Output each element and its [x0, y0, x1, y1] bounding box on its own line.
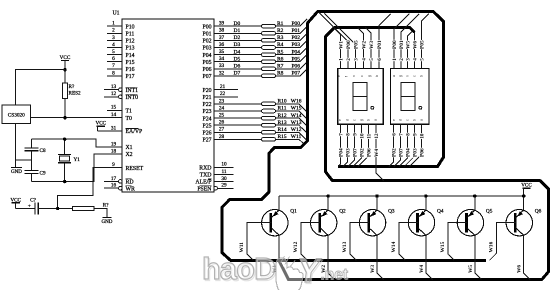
svg-text:5: 5	[369, 58, 375, 61]
svg-text:P17: P17	[126, 74, 135, 80]
svg-text:4: 4	[112, 42, 115, 48]
svg-text:P01: P01	[377, 40, 383, 49]
sensor CS3020 U?	[2, 105, 30, 124]
wire harness bundle A (display/base loop)	[222, 12, 486, 261]
wire VCC to CS3020	[16, 70, 66, 105]
svg-text:n: n	[352, 75, 356, 77]
wire DS2 pin 4 net W6	[414, 32, 416, 68]
svg-text:P26: P26	[202, 131, 211, 137]
transistor Q4	[408, 209, 444, 236]
svg-text:P20: P20	[202, 88, 211, 94]
wire R to GND	[94, 209, 107, 218]
svg-text:P01: P01	[202, 32, 211, 38]
svg-text:P14: P14	[126, 53, 135, 59]
resistor R6	[262, 56, 284, 63]
svg-text:haoD: haoD	[202, 252, 275, 286]
svg-text:D0: D0	[234, 21, 241, 27]
wire DS1 pin 1 net W1	[334, 28, 340, 68]
svg-text:1: 1	[338, 58, 344, 61]
svg-text:31: 31	[111, 125, 117, 131]
pin 9 RESET	[107, 162, 144, 172]
wire C7 to junction	[38, 208, 72, 210]
wire D3	[214, 47, 262, 49]
svg-text:6: 6	[377, 58, 383, 61]
pin 24 P23	[202, 105, 224, 115]
svg-text:P10: P10	[126, 24, 135, 30]
watermark haoDIY.net	[202, 252, 348, 290]
pin 25 P24	[202, 113, 224, 123]
svg-text:e: e	[338, 119, 342, 121]
wire D4	[214, 54, 262, 56]
svg-text:4: 4	[413, 58, 419, 61]
svg-text:RESET: RESET	[126, 166, 144, 172]
wire P24 to R12	[214, 117, 262, 119]
svg-text:PSEN: PSEN	[197, 187, 212, 193]
wire D1	[214, 32, 262, 34]
svg-text:RES2: RES2	[69, 91, 82, 97]
wire Q6 base W16	[490, 223, 516, 261]
pin 35 P04	[202, 49, 224, 59]
svg-text:P00: P00	[346, 40, 352, 49]
svg-text:e: e	[337, 75, 341, 77]
power VCC (reset)	[10, 197, 21, 208]
svg-text:P07: P07	[399, 148, 405, 157]
svg-text:P02: P02	[360, 148, 366, 157]
wire DS2 pin 7 net P07	[394, 124, 401, 166]
node RESET junction	[56, 207, 59, 210]
svg-text:W11: W11	[239, 242, 245, 253]
pin 22 P21	[202, 91, 238, 101]
svg-text:P02: P02	[392, 148, 398, 157]
svg-text:W16: W16	[489, 241, 495, 252]
transistor Q1	[262, 209, 298, 236]
wire P03 to harness	[276, 40, 308, 47]
resistor R1	[262, 21, 284, 28]
pin 34 P05	[202, 56, 224, 66]
svg-text:D2: D2	[234, 35, 241, 41]
svg-text:P05: P05	[354, 40, 360, 49]
svg-text:INT1: INT1	[126, 88, 139, 94]
svg-text:P06: P06	[419, 148, 425, 157]
wire P22 to R10	[214, 103, 262, 105]
svg-text:a: a	[392, 75, 396, 77]
svg-text:P21: P21	[202, 95, 211, 101]
pin 2 P11	[107, 28, 134, 38]
wire P01 to harness	[276, 26, 308, 33]
wire Q5 collector W5	[475, 235, 482, 279]
svg-text:W5: W5	[468, 265, 474, 273]
svg-text:5: 5	[420, 58, 426, 61]
pin 7 P16	[107, 63, 135, 73]
svg-text:P03: P03	[412, 148, 418, 157]
node VCC rail junction Q2	[326, 194, 329, 197]
svg-text:b: b	[413, 119, 417, 121]
svg-text:Q5: Q5	[486, 209, 493, 215]
svg-text:D7: D7	[234, 71, 241, 77]
wire D5	[214, 61, 262, 63]
pin 6 P15	[107, 56, 135, 66]
svg-text:W6: W6	[413, 41, 419, 49]
ground GND (reset)	[101, 218, 112, 226]
svg-text:18: 18	[111, 148, 117, 154]
pin 33 P06	[202, 63, 224, 73]
wire Q5 emitter to VCC rail	[474, 196, 476, 210]
wire DS2 pin 3 net W5	[408, 32, 412, 69]
wire P25 to R13	[214, 124, 262, 126]
pin 37 P02	[202, 35, 224, 45]
pin 18 X2	[107, 148, 133, 158]
pin 17 RD	[104, 176, 134, 186]
capacitor C9	[24, 160, 46, 181]
resistor R? (reset pulldown)	[73, 203, 110, 211]
svg-text:13: 13	[111, 84, 117, 90]
wire X2 rail	[31, 154, 107, 182]
svg-text:T1: T1	[126, 109, 133, 115]
svg-text:W15: W15	[440, 241, 446, 252]
svg-text:P04: P04	[406, 148, 412, 157]
svg-text:GND: GND	[101, 220, 112, 225]
wire Q2 base W12	[301, 223, 320, 261]
svg-text:RXD: RXD	[199, 166, 211, 172]
svg-text:P13: P13	[126, 46, 135, 52]
power VCC (top left)	[60, 55, 71, 69]
resistor R14	[262, 127, 287, 134]
wire DS1 pin 3 net P05	[324, 13, 355, 68]
svg-text:g: g	[399, 75, 403, 77]
wire Q1 collector W1	[278, 235, 280, 259]
svg-text:9: 9	[412, 133, 418, 136]
pin 26 P25	[202, 120, 224, 130]
pin 4 P13	[107, 42, 135, 52]
wire P07 to harness	[276, 69, 308, 76]
svg-text:P00: P00	[202, 24, 211, 30]
node Y1 top junction	[63, 138, 66, 141]
resistor R15	[262, 134, 287, 141]
svg-text:ALE/P: ALE/P	[195, 180, 211, 186]
pin 11 TXD	[200, 169, 234, 179]
svg-text:P07: P07	[353, 148, 359, 157]
wire CS3020 output to T0 pin 14	[30, 117, 122, 119]
svg-text:TXD: TXD	[200, 173, 212, 179]
svg-text:T0: T0	[126, 116, 133, 122]
wire DS2 pin 2 net P01	[401, 14, 419, 69]
svg-text:W4: W4	[374, 149, 380, 157]
transistor Q5	[457, 209, 493, 236]
svg-text:11: 11	[221, 169, 226, 175]
pin 12 INT0	[104, 91, 138, 101]
node R-bottom junction	[63, 116, 66, 119]
svg-text:D1: D1	[234, 28, 241, 34]
svg-text:P06: P06	[367, 148, 373, 157]
wire harness bundle B (digit common loop)	[279, 28, 549, 280]
pin 5 P14	[107, 49, 135, 59]
svg-text:1: 1	[392, 58, 398, 61]
pin 21 P20	[202, 84, 238, 94]
svg-text:W13: W13	[342, 241, 348, 252]
svg-text:21: 21	[220, 84, 226, 90]
svg-text:Q2: Q2	[339, 209, 346, 215]
svg-text:P23: P23	[202, 109, 211, 115]
svg-text:W6: W6	[517, 265, 523, 273]
display DS2 segment letters	[392, 75, 424, 121]
svg-text:12: 12	[111, 91, 117, 97]
svg-text:1: 1	[112, 21, 115, 27]
node VCC rail junction Q3	[375, 194, 378, 197]
wire P26 to R14	[214, 131, 262, 133]
wire Q1 base W11	[247, 223, 271, 261]
node VCC junction	[63, 68, 66, 71]
svg-text:D3: D3	[234, 42, 241, 48]
resistor R11	[262, 106, 287, 113]
svg-text:Q4: Q4	[437, 209, 444, 215]
capacitor C? electrolytic C7	[28, 197, 38, 214]
svg-text:10: 10	[419, 133, 425, 139]
svg-text:16: 16	[111, 183, 117, 189]
wire P02 to harness	[276, 33, 308, 40]
svg-text:19: 19	[111, 141, 117, 147]
svg-text:c: c	[413, 75, 417, 77]
node VCC rail junction Q4	[424, 194, 427, 197]
svg-text:W14: W14	[391, 241, 397, 252]
svg-text:W5: W5	[406, 41, 412, 49]
svg-text:37: 37	[219, 35, 225, 41]
ground GND (below CS3020)	[11, 124, 22, 175]
pin 29 PSEN	[197, 183, 233, 193]
svg-text:n: n	[406, 75, 410, 77]
wire Q6 emitter to VCC rail	[523, 196, 525, 210]
wire Q2 emitter to VCC rail	[327, 196, 329, 210]
svg-text:8: 8	[112, 70, 115, 76]
display DS2 body	[391, 68, 430, 124]
wire W14 to harness	[276, 118, 308, 127]
wire Q4 emitter to VCC rail	[425, 196, 427, 210]
wire W12 to harness	[276, 132, 308, 141]
pin 36 P03	[202, 42, 224, 52]
wire D2	[214, 39, 262, 41]
resistor R2	[262, 28, 284, 35]
svg-text:P22: P22	[202, 102, 211, 108]
wire P00 to harness	[276, 19, 308, 26]
svg-text:P03: P03	[345, 148, 351, 157]
wire P23 to R11	[214, 110, 262, 112]
pin 19 X1	[107, 141, 133, 151]
svg-text:a: a	[373, 119, 377, 121]
pin 1 P10	[107, 21, 135, 31]
wire Q1 emitter to VCC rail	[278, 196, 280, 210]
svg-text:2: 2	[399, 58, 405, 61]
pin 38 P01	[202, 28, 224, 38]
resistor R? RES2	[63, 70, 81, 118]
pin 30 ALE/P	[195, 176, 233, 186]
svg-text:3: 3	[354, 58, 360, 61]
svg-text:P05: P05	[420, 40, 426, 49]
svg-text:P03: P03	[202, 46, 211, 52]
resistor R3	[262, 35, 284, 42]
svg-text:3: 3	[406, 58, 412, 61]
wire DS2 pin 1 net P00	[394, 14, 409, 69]
pin 14 T0	[111, 112, 132, 122]
wire P27 to R15	[214, 138, 262, 140]
transistor Q2	[311, 209, 347, 236]
svg-text:CS3020: CS3020	[8, 112, 25, 118]
svg-text:4: 4	[361, 58, 367, 61]
wire VCC rail (emitters)	[279, 195, 524, 197]
node VCC rail junction Q5	[473, 194, 476, 197]
wire Q3 base W13	[350, 223, 369, 261]
node Y1 bottom junction	[63, 180, 66, 183]
svg-text:d: d	[399, 119, 403, 121]
wire DS1 pin 9 net P07	[348, 124, 355, 166]
svg-text:b: b	[375, 75, 379, 77]
svg-text:e: e	[392, 119, 396, 121]
svg-text:X1: X1	[126, 145, 133, 151]
wire DS1 pin 5 net W3	[365, 28, 371, 69]
display DS1 body	[338, 68, 384, 124]
svg-text:P25: P25	[202, 123, 211, 129]
capacitor C8	[24, 139, 46, 160]
svg-text:33: 33	[219, 63, 225, 69]
svg-text:R?: R?	[103, 203, 109, 209]
svg-text:f: f	[345, 76, 349, 77]
wire DS1 pin 6 net P01	[379, 14, 391, 69]
svg-text:Q1: Q1	[290, 209, 297, 215]
resistor R5	[262, 49, 284, 56]
svg-text:10: 10	[360, 133, 366, 139]
wire Q5 base W15	[448, 223, 467, 261]
svg-text:34: 34	[219, 56, 225, 62]
svg-text:g: g	[359, 119, 363, 121]
pin 31 EA/VP	[97, 125, 142, 135]
svg-text:P05: P05	[202, 60, 211, 66]
svg-text:c: c	[352, 119, 356, 121]
wire P04 to harness	[276, 47, 308, 54]
svg-text:W2: W2	[361, 41, 367, 49]
svg-text:2: 2	[112, 28, 115, 34]
wire Q6 collector W6	[524, 235, 531, 279]
wire W15 to harness	[276, 111, 308, 120]
wire DS1 pin 7 net P04	[338, 124, 340, 166]
svg-text:d: d	[345, 119, 349, 121]
resistor R8	[262, 71, 284, 78]
wire VCC to C7	[16, 208, 35, 210]
svg-text:P16: P16	[126, 67, 135, 73]
pin 8 P17	[107, 70, 135, 80]
svg-text:D4: D4	[234, 49, 241, 55]
wire W11 to harness	[276, 139, 305, 144]
svg-text:P01: P01	[399, 40, 405, 49]
svg-text:22: 22	[220, 91, 226, 97]
svg-text:P02: P02	[202, 39, 211, 45]
wire DS2 pin 8 net P04	[399, 124, 407, 166]
wire DS2 pin 6 net P02	[389, 124, 394, 166]
svg-text:P27: P27	[202, 138, 211, 144]
svg-text:b: b	[366, 119, 370, 121]
wire Q2 collector W2	[328, 235, 335, 279]
svg-text:7: 7	[399, 133, 405, 136]
wire D6	[214, 68, 262, 70]
wire DS1 pin 4 net W2	[358, 28, 364, 69]
svg-text:3: 3	[112, 35, 115, 41]
svg-text:INT0: INT0	[126, 95, 139, 101]
wire RESET to RC	[58, 168, 107, 209]
wire Q3 collector W3	[377, 235, 384, 279]
svg-text:C?: C?	[30, 197, 36, 203]
svg-text:30: 30	[221, 176, 227, 182]
wire DS1 pin 8 net P03	[343, 124, 347, 166]
resistor R7	[262, 64, 284, 71]
svg-text:Q6: Q6	[535, 209, 542, 215]
wire DS2 pin 9 net P03	[404, 124, 414, 166]
svg-text:9: 9	[353, 133, 359, 136]
svg-text:c: c	[406, 119, 410, 121]
wire DS2 pin 10 net P06	[409, 124, 421, 166]
pin 28 P27	[202, 134, 224, 144]
pin 23 P22	[202, 98, 224, 108]
svg-text:P12: P12	[126, 39, 135, 45]
wire DS1 pin 2 net P00	[319, 12, 348, 68]
power VCC (transistors)	[521, 183, 532, 196]
svg-text:P00: P00	[392, 40, 398, 49]
svg-text:Y1: Y1	[74, 157, 81, 163]
svg-text:EA/VP: EA/VP	[126, 129, 143, 135]
svg-text:6: 6	[112, 56, 115, 62]
wire DS1 pin 11 net P06	[358, 124, 369, 166]
wire D7	[214, 75, 262, 77]
svg-text:g: g	[367, 75, 371, 77]
wire Q4 collector W4	[426, 235, 433, 279]
wire DS2 pin 5 net P05	[422, 14, 429, 69]
wire DS1 pin 10 net P02	[353, 124, 362, 166]
svg-text:15: 15	[111, 105, 117, 111]
svg-text:Q3: Q3	[388, 209, 395, 215]
svg-text:8: 8	[406, 133, 412, 136]
svg-text:P24: P24	[202, 116, 211, 122]
svg-text:D6: D6	[234, 64, 241, 70]
svg-text:W3: W3	[370, 265, 376, 273]
svg-text:7: 7	[338, 133, 344, 136]
resistor R13	[262, 120, 287, 127]
svg-text:a: a	[419, 119, 423, 121]
resistor R4	[262, 42, 284, 49]
crystal Y1	[58, 139, 80, 181]
wire Q4 base W14	[399, 223, 418, 261]
pin 32 P07	[202, 70, 224, 80]
svg-text:W12: W12	[293, 241, 299, 252]
svg-text:C8: C8	[40, 148, 46, 154]
svg-text:5: 5	[112, 49, 115, 55]
svg-text:+: +	[28, 203, 31, 209]
svg-text:7: 7	[112, 63, 115, 69]
svg-text:P11: P11	[126, 32, 135, 38]
display DS1 segment letters	[337, 75, 379, 121]
pin 3 P12	[107, 35, 135, 45]
pin 39 P00	[202, 21, 224, 31]
svg-text:29: 29	[221, 183, 227, 189]
svg-text:b: b	[419, 75, 423, 77]
svg-text:.net: .net	[321, 267, 349, 284]
wire P06 to harness	[276, 62, 308, 69]
svg-text:10: 10	[221, 162, 227, 168]
pin 13 INT1	[104, 84, 138, 94]
wire W13 to harness	[276, 125, 308, 134]
svg-text:8: 8	[345, 133, 351, 136]
svg-text:6: 6	[392, 133, 398, 136]
svg-text:P15: P15	[126, 60, 135, 66]
power VCC (EA/VP pin31)	[95, 121, 106, 131]
svg-text:D5: D5	[234, 56, 241, 62]
svg-text:W1: W1	[338, 41, 344, 49]
svg-text:11: 11	[367, 133, 373, 138]
